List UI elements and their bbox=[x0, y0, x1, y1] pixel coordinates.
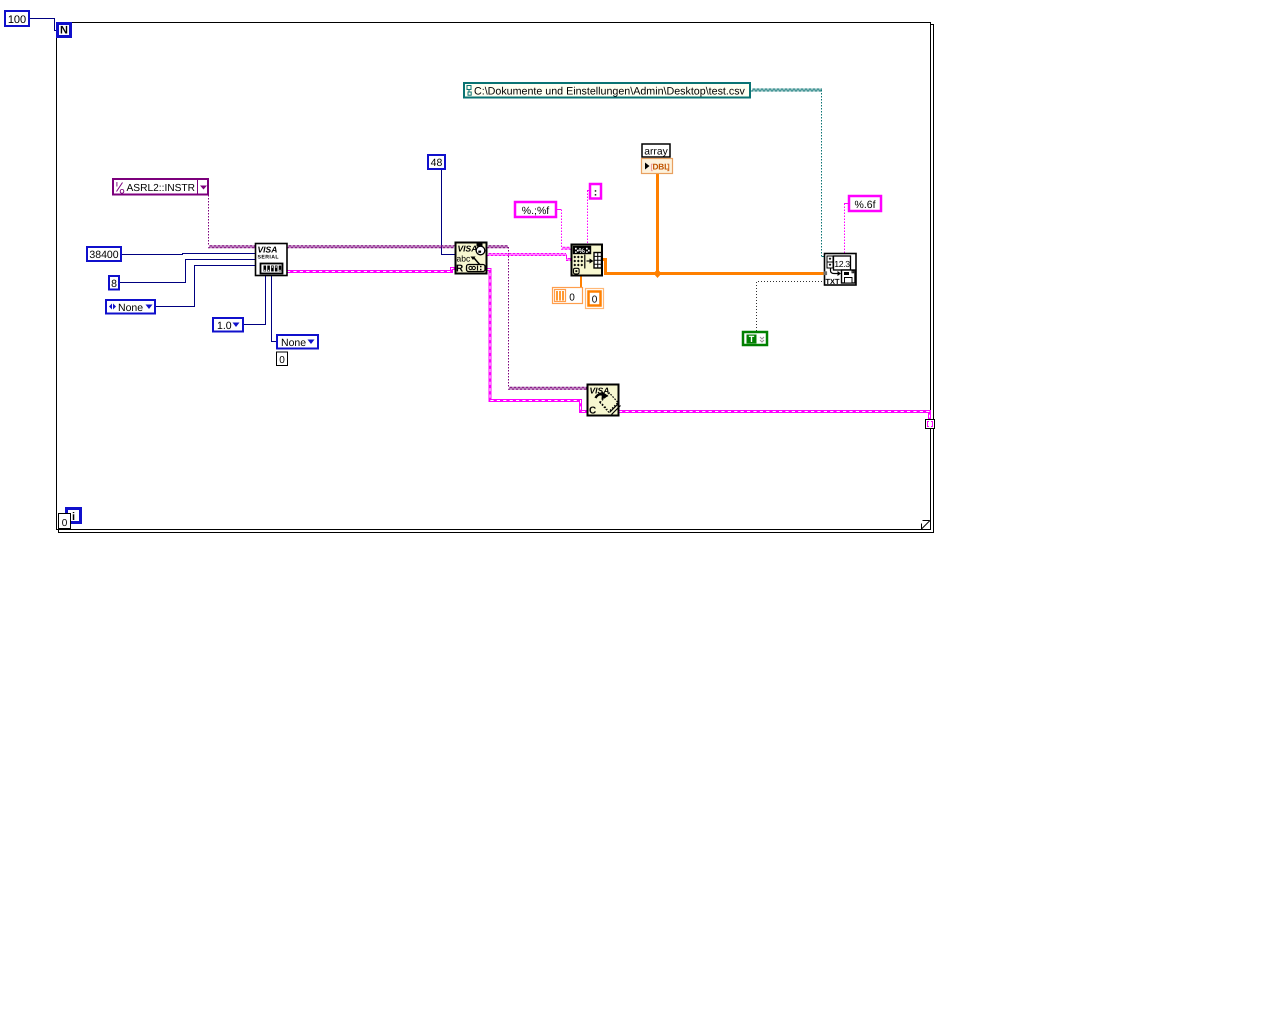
string constant %.6f bbox=[849, 196, 881, 211]
svg-text:1.0: 1.0 bbox=[217, 320, 232, 332]
wire 1.0 stop bits bbox=[244, 275, 266, 325]
svg-text:0: 0 bbox=[592, 295, 598, 306]
for loop N border bbox=[57, 23, 934, 533]
wire array type to constant below bbox=[580, 276, 582, 288]
numeric constant 0 at iteration bbox=[59, 514, 71, 530]
wire VISA resource from ASRL2 constant bbox=[208, 195, 256, 248]
boolean constant TRUE bbox=[743, 332, 767, 345]
ring constant 1.0 bbox=[213, 318, 243, 332]
wire array type constant bbox=[656, 174, 659, 272]
file path constant test.csv bbox=[464, 83, 750, 98]
loop count terminal N bbox=[58, 24, 71, 37]
wire file path bbox=[751, 89, 824, 257]
loop resize corner glyph bbox=[922, 521, 931, 530]
svg-text:T: T bbox=[749, 334, 755, 344]
svg-text:100: 100 bbox=[8, 14, 26, 26]
wire 48 byte count bbox=[442, 169, 456, 255]
iteration terminal i bbox=[67, 509, 81, 524]
wire VISA resource serial to read bbox=[287, 246, 455, 248]
enum constant None parity bbox=[277, 335, 318, 349]
svg-text:C: C bbox=[589, 406, 596, 417]
wire format string %.;%f bbox=[557, 210, 571, 250]
wire format %.6f bbox=[844, 204, 848, 254]
node Write To Spreadsheet File bbox=[825, 254, 857, 287]
svg-text:None: None bbox=[118, 302, 143, 314]
svg-text:0: 0 bbox=[569, 293, 575, 304]
numeric constant 38400 bbox=[87, 247, 121, 261]
array constant DBL bbox=[642, 159, 673, 174]
svg-text:38400: 38400 bbox=[89, 249, 118, 261]
svg-text:VISA: VISA bbox=[258, 245, 278, 255]
svg-text:array: array bbox=[644, 147, 668, 158]
wire 1D array to write file bbox=[602, 260, 824, 274]
wire error read to close bbox=[487, 270, 587, 412]
wire None flow control bbox=[156, 266, 256, 307]
svg-text:%: % bbox=[579, 248, 586, 255]
label array bbox=[642, 144, 670, 158]
svg-text:0: 0 bbox=[279, 355, 285, 366]
svg-text:abc: abc bbox=[457, 254, 471, 264]
wire error close to tunnel bbox=[619, 412, 930, 420]
svg-text:SERIAL: SERIAL bbox=[258, 255, 280, 261]
svg-text:i: i bbox=[72, 511, 75, 523]
svg-text:]: ] bbox=[667, 163, 670, 172]
svg-text:8: 8 bbox=[111, 278, 117, 290]
array index display 0 bbox=[553, 288, 583, 304]
svg-text:%.6f: %.6f bbox=[854, 199, 875, 211]
wire boolean transpose bbox=[757, 282, 825, 332]
coercion dot on array input bbox=[824, 271, 828, 275]
svg-text:R: R bbox=[456, 264, 464, 275]
wire read buffer string bbox=[487, 254, 571, 261]
numeric constant 100 bbox=[5, 11, 29, 26]
VISA resource name constant ASRL2::INSTR bbox=[113, 179, 208, 196]
enum constant None flow control bbox=[106, 300, 155, 314]
numeric constant 48 bbox=[428, 155, 445, 169]
numeric constant 0 below None bbox=[277, 352, 288, 366]
loop output tunnel bbox=[926, 420, 935, 429]
svg-text:None: None bbox=[281, 337, 306, 349]
wire junction bbox=[654, 269, 662, 278]
numeric constant 8 bbox=[109, 276, 119, 290]
node Spreadsheet String To Array bbox=[572, 245, 603, 276]
node VISA Read bbox=[456, 243, 487, 275]
svg-text:O: O bbox=[120, 189, 125, 196]
wire error serial to read bbox=[287, 269, 455, 272]
string constant colon delimiter bbox=[590, 184, 601, 199]
wire 8 data bits bbox=[119, 260, 256, 283]
svg-text:%.;%f: %.;%f bbox=[522, 205, 550, 217]
svg-text:48: 48 bbox=[431, 157, 443, 169]
svg-text:I: I bbox=[116, 182, 118, 189]
svg-text:12.3: 12.3 bbox=[834, 259, 850, 269]
node VISA Close bbox=[588, 385, 621, 417]
svg-text::: : bbox=[594, 187, 598, 199]
svg-text:ASRL2::INSTR: ASRL2::INSTR bbox=[127, 183, 196, 194]
wire count 100 to N bbox=[29, 19, 57, 31]
svg-text:VISA: VISA bbox=[458, 244, 478, 254]
svg-text:N: N bbox=[60, 25, 68, 37]
wire delimiter colon bbox=[587, 191, 589, 245]
array element constant 0 bbox=[586, 289, 604, 309]
svg-text:C:\Dokumente und Einstellungen: C:\Dokumente und Einstellungen\Admin\Des… bbox=[474, 86, 746, 98]
string constant %.;%f bbox=[515, 202, 556, 217]
wire None parity bbox=[272, 275, 277, 342]
node VISA Configure Serial Port bbox=[256, 244, 288, 276]
svg-text:TXT: TXT bbox=[826, 277, 840, 286]
wire VISA resource read to close bbox=[487, 246, 587, 389]
wire 38400 baud bbox=[122, 254, 256, 255]
svg-text:0: 0 bbox=[62, 518, 68, 529]
